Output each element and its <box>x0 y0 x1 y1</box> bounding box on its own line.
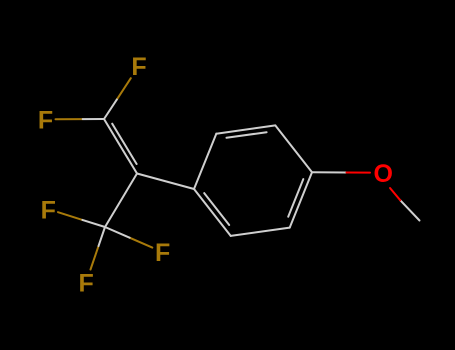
svg-text:F: F <box>41 197 56 225</box>
bond C1-F2 <box>56 118 83 120</box>
bond C1=C2 (double) <box>104 119 137 174</box>
svg-text:F: F <box>131 53 146 81</box>
bond C1-F1 <box>117 78 131 99</box>
svg-text:F: F <box>79 270 94 298</box>
bond C3-F5 <box>91 246 99 269</box>
svg-text:F: F <box>155 239 170 267</box>
bond C2-C3 <box>105 174 137 228</box>
bond ring-O <box>312 171 347 173</box>
svg-text:F: F <box>38 107 53 135</box>
bond C3-F3 <box>58 212 82 220</box>
svg-text:O: O <box>373 160 392 188</box>
bond C2-ring <box>137 174 194 190</box>
bond C3-F4 <box>130 238 153 248</box>
bond O-CH3 <box>400 200 419 220</box>
aromatic inner lines <box>227 132 267 138</box>
benzene ring <box>194 134 216 189</box>
